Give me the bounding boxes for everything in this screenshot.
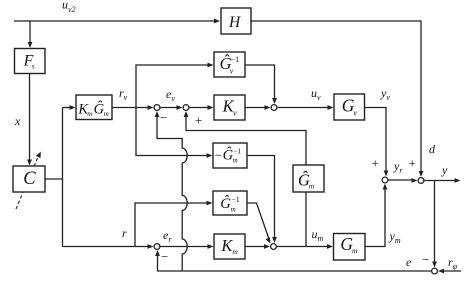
- svg-text:−1: −1: [230, 54, 239, 64]
- svg-text:m: m: [352, 246, 358, 255]
- arrow into sum y left: [412, 178, 418, 183]
- wire H output to d line corner and down to sum y: [251, 21, 421, 173]
- wire e feedback vertical with hops: [157, 114, 187, 271]
- svg-text:m: m: [231, 206, 236, 214]
- arrow into C: [27, 160, 32, 166]
- svg-text:−: −: [161, 249, 168, 264]
- arrow into Km: [208, 244, 214, 249]
- wire y tap down to sum e: [434, 181, 436, 265]
- svg-text:v: v: [230, 67, 234, 76]
- svg-text:ym: ym: [389, 229, 401, 245]
- block Gm hat: [293, 165, 324, 192]
- arrow into sum y_r bottom: [383, 184, 388, 190]
- arrow into KmGm: [70, 105, 76, 110]
- wire r_v branch down to minus Gm inverse: [136, 108, 209, 156]
- arrow into H: [214, 19, 220, 24]
- wire minus Gm inverse output down to sum u_m: [247, 156, 275, 240]
- wire Gm hat output up and left to sum B: [186, 114, 306, 165]
- wire u_m branch up into Gm hat: [305, 192, 307, 247]
- arrow into sum e top: [432, 262, 437, 268]
- svg-text:−1: −1: [231, 195, 240, 204]
- svg-text:H: H: [228, 14, 241, 31]
- sum junction u_v: [271, 105, 277, 111]
- wire Fs output down to C: [29, 74, 31, 163]
- svg-text:−: −: [215, 147, 222, 162]
- sum junction e_r: [154, 244, 160, 250]
- arrow into Fs: [28, 42, 33, 48]
- svg-text:uv: uv: [311, 86, 321, 102]
- svg-text:x: x: [14, 114, 21, 128]
- wire r_phi input: [441, 270, 461, 272]
- svg-text:C: C: [23, 169, 36, 189]
- block Gm inverse: [213, 191, 247, 215]
- wire Gv output y_v down to sum y_r: [365, 108, 387, 174]
- svg-text:ev: ev: [166, 87, 175, 103]
- svg-text:rv: rv: [119, 86, 128, 102]
- arrow into sum u_m left: [264, 244, 270, 249]
- svg-text:rφ: rφ: [448, 255, 458, 271]
- wire e output left along bottom: [158, 254, 432, 272]
- block KmGm: [76, 95, 112, 120]
- wire sum u_m to Gm: [277, 246, 330, 248]
- svg-text:er: er: [163, 228, 172, 244]
- arrow into Kv: [208, 105, 214, 110]
- arrow into sum B left: [177, 105, 183, 110]
- wire branch down to Fs: [29, 21, 31, 44]
- arrow into sum u_v top: [272, 98, 277, 104]
- arrow into sum B bottom: [184, 111, 189, 117]
- svg-text:s: s: [32, 61, 35, 70]
- svg-text:m: m: [87, 110, 92, 118]
- wire Gm inverse output diagonal to sum u_m: [247, 203, 270, 241]
- svg-text:yv: yv: [380, 86, 390, 102]
- svg-text:v: v: [233, 108, 237, 117]
- wire sum A to sum B: [160, 107, 179, 109]
- block Gv: [334, 94, 365, 120]
- wire r_v branch up to Gv inverse: [136, 65, 209, 108]
- svg-text:uv2: uv2: [62, 0, 76, 14]
- arrow into sum e_r bottom: [155, 250, 160, 256]
- wire r branch up to Gm inverse: [135, 203, 209, 247]
- wire Km output to sum u_m: [245, 246, 267, 248]
- wire sum e_r to Km: [160, 246, 210, 248]
- svg-text:yr: yr: [393, 159, 403, 175]
- dashed tuning arrow through C (under block): [16, 158, 38, 209]
- sum junction u_m: [271, 244, 277, 250]
- block H: [221, 8, 251, 34]
- arrow y output: [455, 178, 461, 183]
- wire C output to left bus: [45, 178, 63, 180]
- svg-text:m: m: [232, 247, 238, 256]
- block C: [13, 166, 45, 192]
- block Kv: [214, 95, 245, 120]
- block Gv inverse: [214, 52, 245, 77]
- svg-text:+: +: [372, 156, 379, 171]
- arrow into Gm: [327, 244, 333, 249]
- svg-text:m: m: [233, 157, 238, 165]
- wire sum y output: [425, 180, 460, 182]
- sum junction y: [418, 178, 424, 184]
- arrow into Gm inverse: [207, 201, 213, 206]
- wire sum y_r to sum y: [388, 179, 414, 181]
- svg-text:−: −: [422, 252, 429, 267]
- block Gm: [334, 234, 366, 261]
- wire r line to sum e_r: [63, 246, 151, 248]
- svg-text:+: +: [195, 113, 202, 128]
- svg-text:−1: −1: [233, 147, 241, 156]
- arrow into sum u_m top: [272, 237, 277, 243]
- block Fs: [15, 49, 46, 74]
- arrow into sum A left: [148, 105, 154, 110]
- arrow into sum u_m diagonal: [266, 237, 271, 243]
- svg-text:m: m: [104, 110, 109, 118]
- wire sum B to Kv: [189, 107, 210, 109]
- arrow into sum y_r top: [384, 171, 389, 177]
- dashed arrow head: [36, 152, 41, 159]
- wire left bus to KmGm: [63, 107, 73, 109]
- wire left bus vertical: [62, 108, 64, 247]
- arrow into sum e_r left: [148, 244, 154, 249]
- arrow into sum u_v left: [265, 105, 271, 110]
- svg-text:m: m: [309, 181, 315, 190]
- block Km: [214, 234, 245, 259]
- arrow into Gv: [328, 105, 334, 110]
- svg-text:+: +: [409, 156, 416, 171]
- svg-text:y: y: [441, 163, 448, 177]
- wire u_v2 top line: [14, 20, 216, 22]
- wire Gv inverse output to sum u_v: [245, 65, 275, 101]
- sum junction B: [183, 105, 189, 111]
- arrow into minus Gm inverse: [207, 153, 213, 158]
- svg-text:d: d: [429, 142, 436, 156]
- wire Kv output to sum u_v: [245, 107, 267, 109]
- arrow into sum e right: [438, 269, 444, 274]
- svg-text:e: e: [406, 255, 412, 269]
- sum junction A: [154, 105, 160, 111]
- arrow into Gv inverse: [208, 63, 214, 68]
- wire KmGm output r_v to sum A: [112, 107, 150, 109]
- sum junction e: [432, 268, 438, 274]
- arrow into sum A bottom: [155, 111, 160, 117]
- wire sum u_v to Gv: [278, 107, 331, 109]
- sum junction y_r: [382, 177, 388, 183]
- svg-text:v: v: [353, 108, 357, 117]
- svg-text:um: um: [312, 227, 324, 243]
- block minus Gm inverse: [213, 143, 247, 168]
- arrow into sum y top: [419, 171, 424, 177]
- wire Gm output y_m up to sum y_r: [365, 187, 385, 247]
- svg-text:r: r: [122, 226, 127, 240]
- svg-text:−: −: [160, 110, 167, 125]
